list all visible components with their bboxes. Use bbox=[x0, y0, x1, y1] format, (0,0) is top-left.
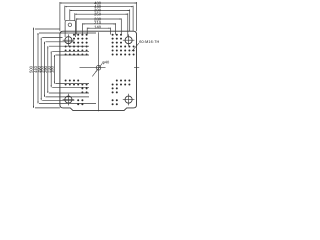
extension line x=115.6 bbox=[115, 23, 117, 34]
extension line x=76.2 bbox=[75, 18, 77, 34]
extension line x=121.3 bbox=[120, 18, 122, 34]
tie bar hole top-right bbox=[123, 34, 135, 46]
hole row y=80.5 bbox=[65, 80, 131, 82]
extension line x=69.8 bbox=[69, 9, 71, 20]
extension line x=136.6 bbox=[136, 2, 138, 31]
extension line x=129.7 bbox=[129, 9, 131, 31]
hole row y=84.5 bbox=[65, 83, 131, 85]
extension line x=64.8 bbox=[64, 6, 66, 21]
horizontal centerline stub right bbox=[134, 67, 139, 69]
extension line y=46.2 bbox=[49, 45, 89, 47]
dimension 440 horizontal bbox=[65, 4, 133, 9]
hole row y=92.3 bbox=[81, 91, 117, 93]
extension line y=41.8 bbox=[46, 41, 75, 43]
hole row y=88.4 bbox=[81, 87, 117, 89]
hole row y=50.5 bbox=[65, 50, 135, 52]
extension line x=87.2 bbox=[86, 28, 88, 35]
extension line y=29.0 bbox=[35, 28, 60, 30]
hole row y=38.6 bbox=[73, 38, 122, 40]
extension line y=100.3 bbox=[42, 99, 74, 101]
hole row y=104.2 bbox=[77, 103, 118, 105]
vertical centerline bbox=[98, 32, 100, 111]
dimension 280 horizontal bbox=[76, 16, 121, 21]
dimension 350 vertical bbox=[40, 42, 45, 97]
extension line y=55.0 bbox=[55, 54, 89, 56]
dimension 290 vertical bbox=[43, 46, 48, 93]
extension line y=51.3 bbox=[52, 50, 89, 52]
extension line y=107.9 bbox=[35, 107, 60, 109]
dimension 230 vertical bbox=[46, 51, 51, 87]
plate outline bbox=[60, 31, 137, 110]
extension line x=110.5 bbox=[110, 28, 112, 35]
dimension 350 horizontal bbox=[75, 12, 128, 17]
extension line y=83.6 bbox=[55, 83, 89, 85]
tie bar hole top-left bbox=[63, 34, 75, 46]
extension line y=103.4 bbox=[39, 102, 96, 104]
hole row y=34.7 bbox=[73, 34, 122, 36]
dimension 500 vertical bbox=[29, 28, 34, 108]
extension line y=33.0 bbox=[39, 32, 96, 34]
hole row y=54.5 bbox=[65, 53, 135, 55]
tie bar hole bottom-left bbox=[63, 94, 75, 106]
extension line y=87.3 bbox=[52, 86, 89, 88]
dimension 390 horizontal bbox=[70, 8, 130, 13]
dimension 210 horizontal bbox=[83, 20, 116, 25]
hole row y=46.5 bbox=[65, 46, 135, 48]
dimension 480 horizontal bbox=[60, 0, 137, 5]
dimension 180 vertical bbox=[50, 55, 55, 84]
svg-text:60-M16-7H: 60-M16-7H bbox=[139, 40, 159, 44]
hole row y=100.2 bbox=[77, 99, 118, 101]
svg-text:φ40: φ40 bbox=[102, 59, 110, 64]
dimension 440 vertical bbox=[33, 33, 38, 103]
extension line x=82.5 bbox=[82, 23, 84, 34]
svg-text:140: 140 bbox=[94, 24, 102, 29]
dimension 390 vertical bbox=[36, 38, 41, 101]
center hole phi40 bbox=[80, 65, 106, 70]
extension line y=37.6 bbox=[42, 37, 62, 39]
svg-text:180: 180 bbox=[50, 65, 55, 73]
extension line x=59.9 bbox=[59, 2, 61, 31]
extension line x=127.8 bbox=[127, 13, 129, 36]
tab hole bbox=[68, 23, 72, 27]
label 60-M16-7H with leader bbox=[131, 40, 159, 52]
leader line phi40 bbox=[92, 59, 110, 76]
extension line y=93.0 bbox=[49, 92, 89, 94]
hole row y=42.6 bbox=[73, 42, 122, 44]
top-left tab boss bbox=[65, 20, 75, 37]
extension line x=74.8 bbox=[74, 13, 76, 20]
extension line x=133.1 bbox=[132, 6, 134, 31]
tie bar hole bottom-right bbox=[123, 94, 135, 106]
dimension 140 horizontal bbox=[87, 24, 110, 29]
extension line y=96.9 bbox=[46, 96, 90, 98]
